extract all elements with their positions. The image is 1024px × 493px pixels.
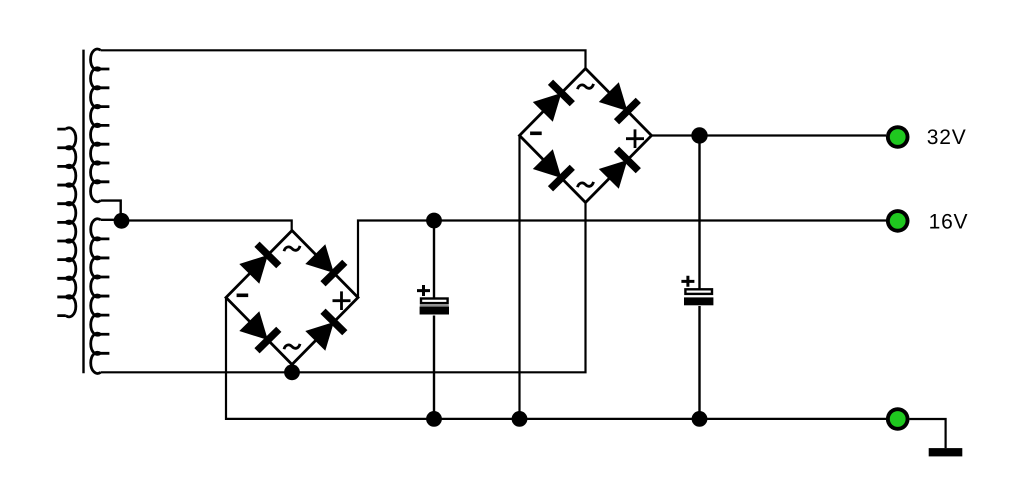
node BR1 bottom on AC rail — [284, 364, 300, 380]
node 16V rail / C1 branch — [426, 213, 442, 229]
wire center tap to lower winding — [101, 219, 122, 221]
capacitor C1 + polarity mark — [417, 285, 430, 296]
wire GND terminal to ground — [910, 419, 946, 448]
node center tap junction — [114, 213, 130, 229]
label ~ top AC BR1 — [284, 246, 300, 251]
capacitor C2 top plate — [685, 289, 712, 294]
transformer T1 core — [82, 50, 84, 374]
wire secondary upper exit to center tap — [101, 201, 121, 221]
label - at BR1 left corner — [237, 294, 249, 298]
diode BR1 top-right (points to + corner) — [305, 244, 347, 286]
wire top rail from secondary top to BR2 AC top — [101, 50, 586, 68]
bridge rectifier BR1 diamond — [226, 231, 358, 365]
diode BR2 bottom-left (points to bottom AC corner) — [533, 149, 575, 191]
label ~ bottom AC BR1 — [284, 344, 300, 349]
node BR2 - on bottom rail — [512, 411, 528, 427]
terminal 16V output green center — [890, 213, 906, 229]
transformer T1 secondary lower winding — [91, 219, 110, 374]
diode BR1 top-left (points to top AC corner) — [239, 242, 281, 284]
ground symbol — [929, 448, 963, 456]
wire C1 branch — [433, 221, 435, 419]
label + at BR1 right corner — [333, 291, 351, 310]
capacitor C1 bottom plate — [420, 307, 449, 315]
wire BR2 - corner riser down to bottom rail — [518, 136, 520, 419]
terminal 32V output green center — [890, 129, 906, 145]
wire BR1 + corner riser and 16V rail to terminal — [358, 221, 886, 298]
diode BR1 bottom-right (points to + corner) — [305, 309, 347, 351]
transformer T1 primary winding — [57, 128, 76, 317]
wire 32V rail BR2 + corner to terminal — [652, 134, 887, 136]
wire BR1 - corner down and bottom rail to GND terminal — [226, 298, 886, 419]
label ~ bottom AC BR2 — [578, 182, 594, 187]
capacitor C1 top plate — [421, 299, 448, 304]
diode BR2 bottom-right (points to + corner) — [599, 147, 641, 189]
wire 16V left segment center tap to BR1 top corner — [122, 221, 292, 231]
terminal GND output green center — [890, 411, 906, 427]
wire BR1 bottom corner stub — [291, 365, 293, 373]
capacitor C2 bottom plate — [684, 297, 713, 305]
label ~ top AC BR2 — [578, 84, 594, 89]
wire C2 branch — [698, 136, 700, 419]
label - at BR2 left corner — [530, 132, 542, 136]
svg-text:16V: 16V — [929, 210, 969, 233]
node C2 on bottom rail — [692, 411, 708, 427]
node C1 on bottom rail — [426, 411, 442, 427]
diode BR2 top-right (points to + corner) — [599, 82, 641, 124]
terminal GND output outer ring — [886, 407, 910, 431]
diode BR2 top-left (points to top AC corner) — [533, 80, 575, 122]
node 32V rail / C2 branch — [691, 127, 707, 143]
transformer T1 secondary upper winding — [91, 49, 110, 202]
capacitor C2 + polarity mark — [681, 276, 694, 287]
label + at BR2 right corner — [626, 129, 644, 148]
diode BR1 bottom-left (points to bottom AC corner) — [239, 311, 281, 353]
svg-text:32V: 32V — [927, 126, 967, 149]
capacitor C1 plate gap — [420, 305, 449, 307]
terminal 16V output outer ring — [886, 209, 910, 233]
wire AC bottom rail secondary bottom to BR2 bottom corner — [101, 203, 586, 373]
bridge rectifier BR2 diamond — [520, 69, 652, 203]
terminal 32V output outer ring — [886, 125, 910, 149]
